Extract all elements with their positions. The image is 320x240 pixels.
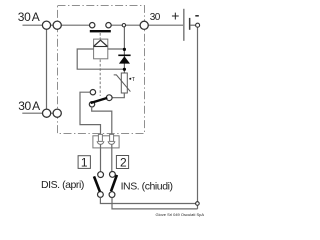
wire switch2 bottom to negative rail [112, 198, 198, 209]
mechanical link dashed (coil to aux switch) [99, 60, 101, 97]
negative rail vertical [197, 27, 199, 209]
connector pin 2 socket cup [108, 141, 115, 144]
svg-text:DIS. (apri): DIS. (apri) [41, 179, 84, 191]
wire pin2 to switch 2 [111, 144, 113, 171]
switch 1 blade (open) [94, 176, 100, 191]
terminal circle bottom feed 1 [43, 109, 51, 117]
svg-text:+: + [171, 8, 179, 24]
terminal circle top feed 1 [42, 21, 50, 29]
node circle on top wire [122, 24, 125, 27]
switch 1 top terminal [98, 172, 104, 178]
wire relay contact right to battery plus [109, 24, 184, 26]
wire thermistor bottom leg [112, 93, 124, 98]
relay main contact right terminal [106, 23, 111, 28]
terminal 30 circle on enclosure edge [140, 21, 148, 29]
svg-text:30 A: 30 A [18, 10, 40, 24]
aux switch upper-left terminal [90, 90, 95, 95]
aux switch common terminal right [106, 95, 112, 101]
coil chevron [94, 40, 108, 46]
relay movable contact bar [90, 30, 111, 32]
switch 2 blade [111, 175, 117, 191]
wire battery minus to node [190, 24, 195, 26]
svg-text:30: 30 [150, 12, 161, 23]
battery negative plate [189, 18, 191, 30]
wire coil left terminal loop [77, 49, 124, 69]
connector pin 1 socket cup [97, 141, 104, 144]
svg-text:1: 1 [81, 156, 88, 170]
coil divider line [94, 46, 108, 48]
diode triangle [119, 56, 130, 63]
terminal circle bottom feed 2 [53, 109, 61, 117]
terminal circle top feed 2 [53, 21, 61, 29]
battery minus node circle [196, 23, 200, 27]
switch 2 top terminal [110, 172, 116, 178]
battery positive plate [183, 9, 185, 41]
thermistor body [121, 73, 127, 93]
aux switch blade [91, 98, 108, 103]
wire pin1 to switch 1 [100, 144, 102, 172]
thermistor diagonal stroke [114, 75, 131, 92]
junction dot diode bottom [123, 68, 126, 71]
connector block body [93, 136, 119, 148]
diode cathode bar [118, 55, 130, 57]
connector pin 2 blade [110, 134, 114, 141]
junction dot diode top [123, 48, 126, 51]
wire diode branch vertical [123, 25, 125, 73]
wire left rail connecting both 30A feeds [46, 25, 48, 113]
switch 1 bottom terminal [98, 192, 104, 198]
enclosure dash-dot boundary box [58, 6, 145, 134]
box label 2 [116, 156, 128, 169]
aux switch lower-left terminal [89, 102, 94, 107]
wire aux lower-left to pin2 [92, 107, 112, 140]
switch 2 bottom terminal [109, 192, 115, 198]
relay coil box [94, 39, 108, 59]
svg-text:2: 2 [120, 156, 127, 170]
wire switch1 bottom to negative rail [100, 197, 195, 203]
relay main contact left terminal [90, 23, 95, 28]
svg-text:Giove Srl 049 Osculati SpA: Giove Srl 049 Osculati SpA [156, 212, 205, 217]
wire coil right terminal [108, 48, 125, 50]
connector pin 1 blade [98, 134, 102, 141]
box label 1 [78, 156, 90, 169]
thermistor label dot [129, 78, 131, 80]
mechanical link dashed (bar to coil) [99, 33, 101, 39]
svg-text:30 A: 30 A [18, 99, 40, 113]
label minus [195, 15, 199, 17]
wire top 30A feed [23, 24, 93, 26]
wire aux upper-left to pin1 [80, 92, 101, 140]
wire bottom 30A feed [22, 112, 57, 114]
svg-text:INS. (chiudi): INS. (chiudi) [121, 181, 173, 193]
svg-text:T: T [132, 77, 136, 83]
junction circle on negative rail [196, 202, 200, 206]
